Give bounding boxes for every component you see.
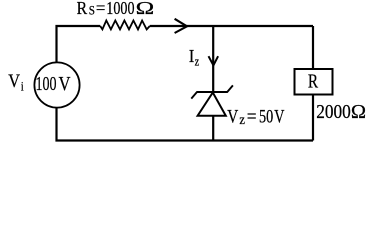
svg-text:V: V — [59, 73, 71, 95]
current arrow Iz on middle wire — [209, 56, 219, 65]
svg-text:100: 100 — [36, 73, 57, 95]
zener diode cathode bar — [197, 91, 228, 93]
voltage source Vi circle — [34, 62, 79, 107]
svg-text:R: R — [308, 71, 319, 93]
zener right tab — [227, 85, 233, 92]
svg-text:=: = — [247, 106, 257, 127]
label RS=1000ohm — [77, 0, 155, 18]
wire right branch top — [312, 26, 314, 69]
svg-text:V: V — [227, 106, 238, 127]
svg-text:1000: 1000 — [106, 0, 134, 18]
svg-text:V: V — [274, 106, 284, 127]
current arrow on top wire — [175, 19, 187, 33]
label Vi — [8, 72, 24, 93]
svg-text:V: V — [8, 72, 20, 92]
label VZ=50V — [227, 106, 284, 127]
zener diode triangle — [198, 93, 226, 116]
resistor R box — [295, 69, 333, 95]
svg-text:R: R — [77, 0, 88, 18]
svg-text:z: z — [195, 55, 200, 69]
wire middle branch top — [212, 26, 214, 92]
svg-text:2000: 2000 — [316, 101, 351, 123]
zener left tab — [191, 92, 197, 99]
wire right branch bottom — [312, 95, 314, 141]
wire left-bottom segment — [57, 108, 314, 141]
wire top-middle segment — [150, 25, 313, 27]
svg-text:Ω: Ω — [136, 0, 155, 18]
label 2000ohm — [316, 101, 366, 123]
svg-text:=: = — [96, 0, 106, 18]
wire middle branch bottom — [212, 116, 214, 141]
svg-text:S: S — [89, 3, 95, 17]
svg-text:i: i — [21, 78, 24, 93]
label Iz — [189, 46, 200, 69]
resistor RS zigzag — [100, 21, 150, 30]
svg-text:z: z — [239, 112, 245, 127]
svg-text:Ω: Ω — [351, 101, 366, 123]
wire top-left segment — [57, 26, 101, 63]
svg-text:50: 50 — [259, 106, 273, 127]
